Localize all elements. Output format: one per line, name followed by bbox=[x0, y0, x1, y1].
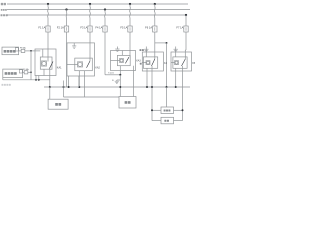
svg-text:F6 1A: F6 1A bbox=[145, 26, 152, 30]
svg-text:F4 1A: F4 1A bbox=[95, 26, 102, 30]
svg-text:YJ-01: YJ-01 bbox=[108, 73, 114, 75]
svg-text:F5 1A: F5 1A bbox=[120, 26, 127, 30]
svg-text:KA1: KA1 bbox=[57, 67, 62, 70]
svg-text:F3 1A: F3 1A bbox=[80, 26, 87, 30]
svg-text:F8 4A: F8 4A bbox=[20, 47, 26, 50]
svg-text:F9 4A: F9 4A bbox=[23, 68, 29, 71]
svg-text:F7 1A: F7 1A bbox=[176, 26, 183, 30]
svg-text:KA3: KA3 bbox=[136, 60, 141, 63]
svg-text:F1 1A: F1 1A bbox=[38, 26, 45, 30]
svg-text:F2 1A: F2 1A bbox=[57, 26, 64, 30]
svg-text:KA2: KA2 bbox=[95, 67, 100, 70]
